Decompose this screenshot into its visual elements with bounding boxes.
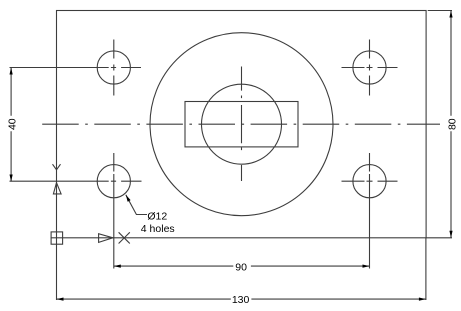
svg-text:40: 40 (6, 118, 18, 130)
svg-text:130: 130 (232, 294, 250, 306)
svg-text:90: 90 (235, 262, 247, 274)
svg-text:Ø12: Ø12 (147, 210, 167, 222)
svg-text:4 holes: 4 holes (141, 223, 175, 235)
svg-text:80: 80 (446, 118, 458, 130)
